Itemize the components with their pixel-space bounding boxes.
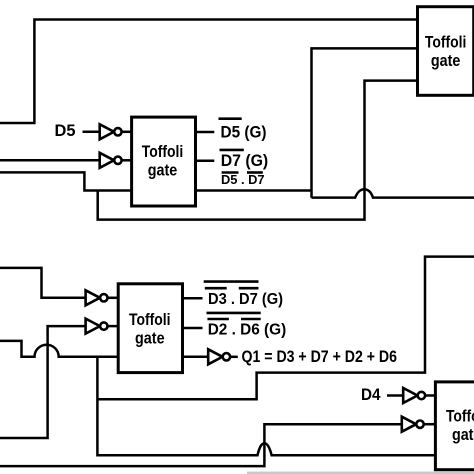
wire net K: junction on net H down to U4 pin 3 with hop over net M [97,357,435,455]
svg-text:gate: gate [431,52,461,70]
wire net H: left edge to U2 pin 3 with hop over net G [0,341,119,357]
label D2bar.D6bar double-overline (G) [207,312,261,315]
wire D5 input [83,131,101,134]
wire net M: left edge along bottom up to inverter G6 [0,424,403,466]
inverter G6 [402,417,424,432]
wire U2 output 3 to inverter G7 [183,356,210,359]
wire G7 output stub [230,356,238,359]
Toffoli gate U4 [435,382,474,470]
inverter G5 (D4) [403,388,425,403]
svg-text:D5 (G): D5 (G) [221,124,267,142]
wire U2 output 1 stub [183,297,203,300]
inverter G2 [100,153,122,168]
svg-text:D7 (G): D7 (G) [221,152,269,170]
wire net G: left edge up to inverter G4 [0,326,87,438]
wire U1 output 2 stub [196,160,215,163]
svg-text:D5: D5 [55,122,76,140]
wire U1 output 3 to node J1 [196,189,312,192]
label D7bar (G) [220,149,244,152]
wire U2 output 2 stub [183,327,203,330]
svg-text:D5 . D7: D5 . D7 [221,173,265,187]
wire net F: left edge to inverter G3 [0,268,87,298]
svg-text:Toffoli: Toffoli [446,408,474,426]
svg-text:gate: gate [135,330,165,348]
wire D4 input [387,394,404,397]
label D5bar.D7bar [222,171,239,174]
svg-text:Toffoli: Toffoli [142,143,184,161]
wire G1 output to U1 pin 1 [122,131,133,134]
svg-text:D2 . D6 (G): D2 . D6 (G) [208,322,287,339]
label D3bar.D7bar double-overline (G) [204,280,259,283]
Toffoli gate U1 [132,117,196,206]
wire net L: junction on net K across and up to right edge [97,257,474,400]
svg-text:Toffoli: Toffoli [425,34,467,52]
wire G6 output to U4 pin 2 [424,423,436,426]
wire node J1 to right edge with hop over net E [312,189,474,197]
wire G3 output to U2 pin 1 [108,297,119,300]
inverter G3 [86,290,108,305]
wire net A: left edge to Toffoli gate U3 input 1 [0,20,418,124]
label D5bar (G) [219,117,242,120]
svg-text:D4: D4 [361,386,381,404]
svg-text:Q1 = D3 + D7 + D2 + D6: Q1 = D3 + D7 + D2 + D6 [242,348,398,366]
svg-text:gate: gate [148,162,178,180]
wire node J1 vertical riser to U3 pin 2 [312,48,418,197]
wire net E: junction on net C down and across to U3 pin 3 [98,81,418,220]
svg-text:D3 . D7 (G): D3 . D7 (G) [208,291,283,308]
inverter G4 [86,319,108,334]
wire net B: left edge to inverter G2 [0,159,101,162]
wire G5 output to U4 pin 1 [425,394,436,397]
wire net C: left edge to U1 pin 3 [0,172,132,190]
Toffoli gate U3 [418,7,474,96]
inverter G7 (Q1) [208,349,230,364]
svg-text:gate: gate [452,426,474,444]
wire G4 output to U2 pin 2 [108,325,119,328]
inverter G1 (D5) [100,124,122,139]
wire G2 output to U1 pin 2 [122,159,133,162]
Toffoli gate U2 [118,284,182,373]
svg-text:Toffoli: Toffoli [129,311,171,329]
wire U1 output 1 stub [196,131,215,134]
